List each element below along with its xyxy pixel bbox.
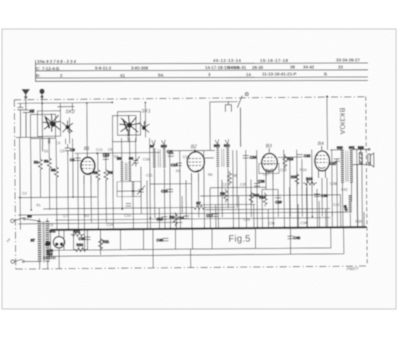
wire top rail — [15, 101, 238, 137]
capacitor C10 — [156, 217, 167, 222]
resistor R17 — [295, 172, 299, 186]
capacitor C11 — [167, 150, 174, 157]
pickup jack — [225, 101, 231, 112]
resistor R24 — [74, 243, 88, 252]
rail grid top — [75, 152, 160, 155]
capacitor C39 — [84, 236, 90, 238]
capacitor C12 — [103, 156, 109, 158]
IF transformer T1 — [150, 140, 167, 169]
oscillator coil S5 S6 — [117, 157, 134, 198]
coil L2 — [44, 156, 52, 170]
resistor R4 — [169, 212, 177, 226]
output transformer S20 S21 — [337, 146, 364, 183]
wire jumpers (grid/screen links) — [117, 150, 343, 197]
resistor R7 — [192, 205, 206, 209]
coil S7 below SK2 — [48, 138, 50, 144]
table row 3 text — [36, 72, 327, 79]
rotary switch SK2 wafer 2 — [62, 121, 73, 133]
resistor R9 — [224, 189, 228, 203]
AVC rail — [18, 196, 97, 199]
rotary switch SK1 wafer 2 — [139, 121, 150, 133]
loudspeaker Гр1 — [353, 148, 374, 167]
capacitor C1 — [23, 108, 35, 137]
resistor R21 — [98, 237, 102, 251]
top connector circle — [245, 92, 248, 95]
capacitor C19 — [176, 162, 182, 164]
resistor R2 — [93, 168, 100, 182]
capacitor C14 — [126, 204, 132, 207]
rail grid2 — [43, 208, 192, 209]
power transformer Тр — [30, 221, 56, 263]
antenna W1 — [22, 89, 29, 109]
tube B4 — [315, 151, 330, 171]
oscillator section box at B3 — [259, 163, 279, 173]
table row 1 text — [37, 58, 360, 65]
winding S23 — [44, 252, 56, 258]
scattered resistors — [70, 151, 341, 251]
resistor R23 — [359, 149, 362, 164]
tube B3 — [262, 153, 278, 172]
capacitor C40 — [162, 237, 168, 239]
main wire rails — [18, 149, 349, 224]
B+ rail 2 — [45, 228, 343, 257]
resistor R14 — [263, 192, 267, 206]
coil S8 below SK1 — [127, 130, 130, 142]
switch B5 — [14, 214, 39, 221]
coil L3 — [51, 165, 59, 179]
capacitor C37 — [334, 158, 340, 160]
mains terminal 2 — [11, 260, 14, 263]
resistor R16 — [283, 154, 287, 168]
capacitor C22 — [167, 188, 173, 190]
band switch box SK1 — [117, 112, 140, 136]
chassis bus — [50, 227, 366, 230]
table row 2 text — [36, 65, 343, 72]
B+ rail 1 — [50, 228, 330, 250]
choke S19 — [343, 195, 351, 213]
capacitor C26 — [254, 182, 260, 184]
resistor R18 — [303, 181, 317, 185]
coil L1 — [34, 157, 43, 171]
parts table — [35, 60, 368, 81]
oscillator coil box — [117, 182, 141, 197]
capacitor C9 — [65, 144, 75, 155]
antenna W2 (ground lead) — [40, 89, 45, 151]
capacitor C43 — [287, 235, 293, 237]
capacitor C32 — [297, 154, 303, 156]
resistor R3 — [104, 168, 113, 182]
trimmer C15 — [137, 185, 145, 195]
chassis dash-dot border — [14, 97, 367, 269]
capacitor C2 — [17, 104, 23, 138]
capacitor C16 — [183, 215, 189, 217]
dial lamp Л — [45, 236, 64, 248]
rotary switch SK1 — [119, 115, 139, 135]
pickup switch — [237, 96, 242, 147]
band switch box SK2 — [37, 111, 60, 137]
resistor R11 — [249, 191, 253, 205]
capacitor C24 — [243, 155, 249, 157]
vertical wires — [13, 96, 363, 269]
capacitor C36 — [314, 193, 320, 195]
IF transformer T2 — [214, 139, 230, 168]
capacitor C29 — [275, 194, 281, 196]
capacitor C17 — [212, 213, 218, 215]
rotary switch SK2 — [43, 114, 61, 132]
mains terminal 1 — [11, 219, 14, 222]
feeder wires below bus — [39, 229, 212, 269]
tube B1 — [81, 157, 95, 174]
trimmer C13 — [132, 157, 140, 167]
tube B2 — [187, 152, 204, 172]
resistor R22 — [70, 230, 84, 237]
capacitor C8 — [75, 157, 81, 159]
